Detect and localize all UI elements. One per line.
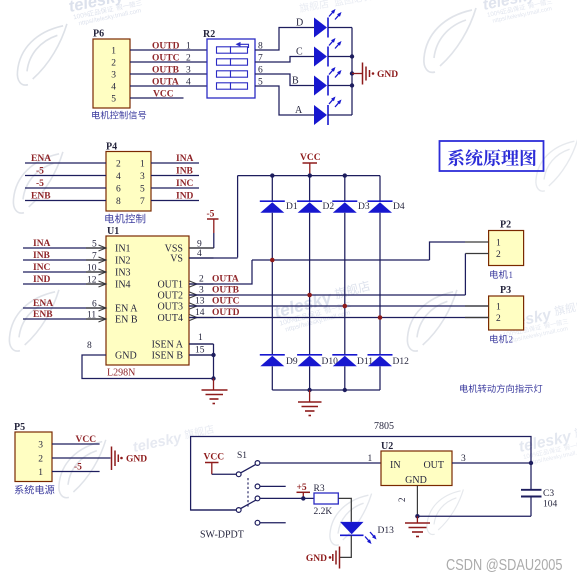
svg-text:S1: S1 — [237, 451, 247, 461]
wire ENA — [23, 307, 106, 309]
svg-text:INC: INC — [33, 263, 51, 273]
svg-text:R2: R2 — [203, 29, 215, 40]
wire column 4 middle — [379, 213, 381, 355]
svg-text:EN B: EN B — [115, 315, 138, 326]
svg-text:OUTD: OUTD — [152, 42, 180, 52]
svg-text:VCC: VCC — [153, 90, 174, 100]
ground (U2) — [416, 516, 418, 522]
svg-text:D: D — [296, 18, 303, 29]
svg-text:4: 4 — [116, 172, 121, 182]
wire R2 pin6 to LED B — [255, 74, 314, 86]
wire P4 pin1 INA — [151, 162, 199, 164]
svg-text:OUT4: OUT4 — [157, 313, 183, 324]
svg-text:104: 104 — [543, 500, 558, 510]
svg-text:IND: IND — [33, 275, 51, 285]
wire column 3 lower — [344, 366, 346, 390]
svg-text:IN: IN — [390, 460, 401, 471]
label 电机控制 — [105, 214, 145, 224]
diode D9 — [260, 354, 285, 356]
wire S1 throw4 stub — [260, 522, 286, 524]
wire P6 pin5 VCC stub — [130, 97, 184, 99]
junction — [350, 83, 354, 87]
wire column 4 lower — [379, 366, 381, 390]
svg-text:2: 2 — [116, 160, 121, 170]
svg-text:INB: INB — [176, 167, 194, 177]
svg-text:P4: P4 — [106, 142, 117, 153]
svg-text:GND: GND — [405, 475, 427, 486]
wire OUT2 OUTB row — [189, 294, 465, 296]
svg-text:IN4: IN4 — [115, 280, 131, 291]
wire ENB — [23, 318, 106, 320]
svg-text:4: 4 — [111, 83, 116, 93]
svg-text:1: 1 — [111, 47, 116, 57]
wire OUT1 jog — [189, 260, 252, 284]
wire VS riser — [237, 176, 239, 258]
wire P5 pin2 GND — [52, 457, 111, 459]
svg-text:1: 1 — [509, 270, 514, 280]
svg-text:7: 7 — [140, 197, 145, 207]
wire bottom rail — [417, 515, 531, 517]
svg-text:OUTD: OUTD — [212, 308, 240, 318]
wire R2 pin5 to LED A — [255, 86, 314, 115]
svg-text:ISEN A: ISEN A — [152, 340, 184, 351]
svg-text:OUTA: OUTA — [212, 275, 239, 285]
wire LED cathode bus — [351, 28, 353, 116]
wire INB — [23, 259, 106, 261]
svg-text:INA: INA — [176, 154, 194, 164]
wire left rail — [191, 437, 531, 511]
svg-text:OUT: OUT — [423, 460, 444, 471]
diode D1 — [260, 200, 285, 202]
wire R2 pin7 to LED C — [255, 57, 314, 63]
svg-text:1: 1 — [140, 160, 145, 170]
U1 input pin arrows — [99, 245, 107, 251]
svg-text:VS: VS — [170, 254, 183, 265]
wire P4 pin5 INC — [151, 187, 199, 189]
svg-text:OUT1: OUT1 — [157, 280, 183, 291]
connector P4 — [106, 152, 151, 212]
svg-text:8: 8 — [87, 341, 92, 351]
junction OUTD col4 — [378, 315, 383, 320]
wire P4 pin6 -5 — [25, 187, 106, 189]
label 系统电源 — [15, 485, 55, 494]
diode D4 — [368, 200, 393, 202]
ground (matrix) — [309, 390, 311, 402]
svg-text:U1: U1 — [107, 226, 119, 237]
junction — [350, 71, 354, 75]
svg-text:D4: D4 — [393, 202, 405, 212]
wire INA — [23, 247, 106, 249]
svg-text:3: 3 — [140, 172, 145, 182]
junction — [301, 496, 305, 500]
junction — [343, 388, 347, 392]
diode D2 — [297, 200, 322, 202]
svg-text:INA: INA — [33, 239, 51, 249]
svg-text:GND: GND — [115, 351, 137, 362]
junction — [307, 388, 311, 392]
svg-text:INC: INC — [176, 179, 194, 189]
connector P6 — [93, 39, 130, 108]
svg-text:OUT3: OUT3 — [157, 302, 183, 313]
svg-text:1: 1 — [496, 239, 501, 249]
svg-text:P2: P2 — [500, 220, 511, 231]
connector P3 — [489, 296, 524, 330]
wire P2 pin1 — [465, 241, 489, 243]
connector P5 — [15, 432, 52, 482]
svg-text:2: 2 — [496, 314, 501, 324]
wire P6 pin1 to R2 — [130, 49, 207, 51]
wire P6 pin3 to R2 — [130, 73, 207, 75]
svg-text:IN2: IN2 — [115, 256, 131, 267]
wire P5 pin3 VCC — [52, 443, 100, 445]
junction — [270, 173, 274, 177]
junction OUTA col1 — [270, 258, 275, 263]
power ground GND (D13) — [339, 547, 341, 569]
svg-text:D2: D2 — [323, 202, 335, 212]
U1 pin stubs — [86, 247, 106, 249]
svg-text:8: 8 — [116, 197, 121, 207]
svg-text:5: 5 — [111, 95, 116, 105]
junction — [415, 514, 419, 518]
title box 系统原理图 — [440, 141, 544, 171]
svg-text:IN3: IN3 — [115, 268, 131, 279]
svg-text:A: A — [295, 105, 303, 116]
svg-text:SW-DPDT: SW-DPDT — [200, 530, 244, 541]
junction — [343, 173, 347, 177]
svg-text:14: 14 — [195, 308, 205, 318]
svg-text:2: 2 — [509, 335, 514, 345]
svg-text:-5: -5 — [36, 179, 44, 189]
svg-text:GND: GND — [126, 455, 147, 465]
svg-text:INB: INB — [33, 251, 51, 261]
wire P4 pin3 INB — [151, 175, 199, 177]
svg-text:2: 2 — [186, 54, 191, 64]
wire R2 pin8 to LED D — [255, 28, 314, 51]
wire column 2 upper — [309, 176, 311, 202]
svg-text:2: 2 — [111, 59, 116, 69]
svg-text:13: 13 — [195, 297, 205, 307]
diode D3 — [332, 200, 357, 202]
svg-text:-5: -5 — [36, 167, 44, 177]
capacitor C3 — [530, 463, 532, 490]
wire GND pin8 loop — [82, 355, 214, 379]
ground (U1) — [213, 379, 215, 390]
svg-text:5: 5 — [140, 185, 145, 195]
junction — [308, 173, 312, 177]
wire column 4 upper — [379, 176, 381, 202]
svg-text:D3: D3 — [358, 202, 370, 212]
wire S1 throw2 stub — [260, 485, 286, 487]
svg-text:D12: D12 — [393, 357, 410, 367]
wire P4 pin2 ENA — [25, 162, 106, 164]
U1 output pin arrows — [190, 281, 198, 287]
wire column 2 middle — [309, 213, 311, 355]
svg-text:ENB: ENB — [31, 192, 51, 202]
LED D — [314, 18, 327, 38]
wire P6 pin4 to R2 — [130, 85, 207, 87]
wire column 1 middle — [271, 213, 273, 355]
junction OUTB col2 — [307, 293, 312, 298]
label 电机1 — [490, 270, 508, 279]
LED A — [314, 105, 327, 125]
svg-text:2.2K: 2.2K — [314, 507, 333, 517]
svg-text:1: 1 — [38, 468, 43, 478]
diode D12 — [368, 354, 393, 356]
wire R3 to D13 — [338, 498, 351, 522]
svg-text:2: 2 — [496, 250, 501, 260]
wire P4 pin4 -5 — [25, 175, 106, 177]
svg-text:OUTA: OUTA — [152, 78, 179, 88]
wire OUT4 OUTD row — [189, 317, 489, 319]
wire VCC bus — [238, 175, 380, 177]
svg-text:6: 6 — [116, 185, 121, 195]
svg-text:OUTC: OUTC — [212, 297, 240, 307]
svg-text:OUTB: OUTB — [152, 66, 180, 76]
svg-text:3: 3 — [38, 441, 43, 451]
svg-text:VCC: VCC — [204, 453, 225, 463]
power ground GND (P5) — [111, 447, 113, 471]
svg-text:P6: P6 — [93, 29, 104, 40]
svg-text:15: 15 — [195, 346, 205, 356]
svg-text:1: 1 — [496, 303, 501, 313]
wire OUT3 OUTC row — [189, 305, 489, 307]
wire VS — [189, 257, 238, 259]
svg-text:-5: -5 — [74, 463, 82, 473]
svg-text:2: 2 — [38, 454, 43, 464]
wire P4 pin7 IND — [151, 200, 199, 202]
svg-text:P3: P3 — [500, 285, 511, 296]
svg-text:4: 4 — [186, 78, 191, 88]
svg-text:OUT2: OUT2 — [157, 291, 183, 302]
wire P2 pin2 — [465, 253, 488, 255]
junction — [529, 461, 533, 465]
svg-text:+5: +5 — [297, 483, 307, 493]
wire ISEN A — [189, 343, 214, 345]
wire S1 throw1 to U2 IN — [260, 462, 381, 464]
LED C — [314, 47, 327, 67]
LED D13 — [340, 522, 364, 534]
wire IND — [23, 283, 106, 285]
wire ISEN riser — [213, 344, 215, 379]
wire -5 to VSS — [213, 233, 215, 248]
svg-text:B: B — [292, 76, 299, 87]
svg-text:GND: GND — [306, 554, 327, 564]
wire P4 pin8 ENB — [25, 200, 106, 202]
svg-text:OUTC: OUTC — [152, 54, 180, 64]
svg-text:2: 2 — [397, 498, 407, 503]
wire column 1 lower — [271, 366, 273, 390]
svg-text:P5: P5 — [14, 422, 25, 433]
wire U2 OUT — [452, 462, 531, 464]
svg-text:ENB: ENB — [33, 310, 53, 320]
svg-text:1: 1 — [368, 454, 373, 464]
svg-text:D13: D13 — [378, 526, 395, 536]
power ground GND (LED bus) — [352, 73, 362, 75]
junction — [211, 353, 215, 357]
svg-text:IND: IND — [176, 192, 194, 202]
wire D13 to ground — [340, 535, 351, 557]
wire column 2 lower — [309, 366, 311, 390]
junction — [211, 376, 215, 380]
wire bottom bus — [272, 389, 380, 391]
svg-text:VCC: VCC — [300, 153, 321, 163]
svg-text:3: 3 — [111, 71, 116, 81]
svg-text:GND: GND — [377, 70, 398, 80]
svg-text:3: 3 — [186, 66, 191, 76]
svg-text:3: 3 — [199, 286, 204, 296]
wire U2 GND stem — [416, 486, 418, 517]
label 电机2 — [490, 335, 508, 344]
svg-text:OUTB: OUTB — [212, 286, 240, 296]
svg-text:C: C — [296, 47, 303, 58]
svg-text:D9: D9 — [286, 357, 298, 367]
IC U1 L298N — [106, 236, 189, 365]
svg-text:L298N: L298N — [107, 368, 135, 379]
wire S1 throw3 to R3 — [260, 497, 314, 499]
diode D10 — [297, 354, 322, 356]
connector P2 — [489, 231, 524, 266]
wire column 3 middle — [344, 213, 346, 355]
svg-text:IN1: IN1 — [115, 244, 131, 255]
wire VCC to S1 common — [212, 473, 236, 475]
wire column 3 upper — [344, 176, 346, 202]
svg-text:C3: C3 — [543, 489, 554, 499]
wire P3 pin2 stub — [465, 317, 489, 319]
svg-text:VCC: VCC — [76, 435, 97, 445]
wire column 1 upper — [271, 176, 273, 202]
wire OUTA row — [252, 259, 430, 261]
wire P5 pin1 -5 — [52, 471, 100, 473]
svg-text:ENA: ENA — [33, 299, 53, 309]
svg-text:ISEN B: ISEN B — [152, 351, 184, 362]
wire S1 pole2 common — [191, 509, 236, 511]
junction OUTC col3 — [343, 304, 348, 309]
svg-text:1: 1 — [198, 333, 203, 343]
svg-text:-5: -5 — [207, 210, 215, 220]
wire INC — [23, 271, 106, 273]
svg-text:U2: U2 — [381, 441, 393, 452]
svg-text:2: 2 — [199, 275, 204, 285]
svg-text:EN A: EN A — [115, 304, 138, 315]
diode D11 — [332, 354, 357, 356]
svg-text:D1: D1 — [286, 202, 298, 212]
wire ISEN B — [189, 354, 214, 356]
junction — [350, 54, 354, 58]
LED B — [314, 76, 327, 96]
label 电机转动方向指示灯 — [460, 384, 542, 393]
svg-text:CSDN @SDAU2005: CSDN @SDAU2005 — [446, 557, 563, 574]
label 电机控制信号 — [92, 111, 146, 120]
wire P3 pin1 stub — [465, 305, 489, 307]
svg-text:1: 1 — [186, 42, 191, 52]
svg-text:ENA: ENA — [31, 154, 51, 164]
wire P6 pin2 to R2 — [130, 61, 207, 63]
svg-text:7805: 7805 — [374, 421, 394, 432]
